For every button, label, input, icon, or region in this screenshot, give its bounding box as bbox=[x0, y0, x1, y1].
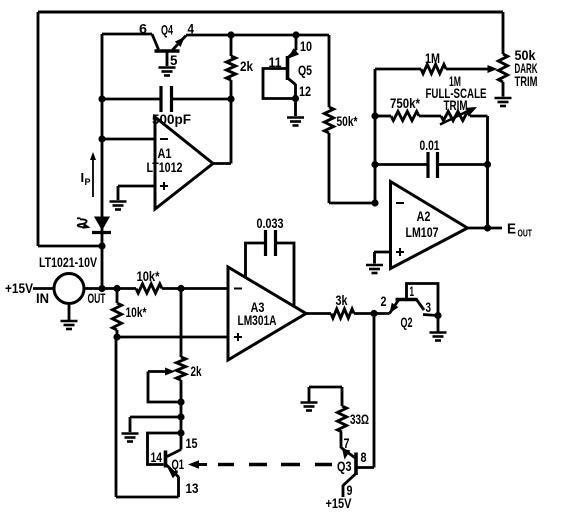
svg-text:LT1021-10V: LT1021-10V bbox=[39, 254, 98, 270]
svg-text:TRIM: TRIM bbox=[515, 73, 538, 89]
svg-text:LM301A: LM301A bbox=[238, 312, 277, 328]
svg-text:1: 1 bbox=[410, 283, 415, 299]
svg-text:12: 12 bbox=[299, 83, 311, 99]
svg-text:14: 14 bbox=[151, 449, 163, 465]
svg-text:7: 7 bbox=[344, 435, 350, 451]
svg-text:Q2: Q2 bbox=[401, 314, 413, 330]
svg-text:10k*: 10k* bbox=[137, 268, 160, 284]
svg-text:Q5: Q5 bbox=[298, 62, 312, 78]
svg-text:3: 3 bbox=[426, 299, 432, 315]
svg-text:4: 4 bbox=[188, 21, 195, 37]
svg-text:8: 8 bbox=[361, 449, 367, 465]
svg-text:Q1: Q1 bbox=[172, 456, 185, 472]
svg-text:0.01: 0.01 bbox=[420, 137, 440, 153]
svg-text:A2: A2 bbox=[417, 208, 431, 224]
svg-text:OUT: OUT bbox=[88, 290, 106, 306]
svg-text:Q4: Q4 bbox=[161, 22, 173, 38]
svg-text:11: 11 bbox=[269, 54, 282, 70]
svg-text:LT1012: LT1012 bbox=[147, 159, 183, 175]
svg-text:6: 6 bbox=[139, 21, 147, 37]
svg-text:E: E bbox=[507, 221, 516, 238]
svg-text:500pF: 500pF bbox=[152, 111, 191, 127]
svg-text:0.033: 0.033 bbox=[257, 215, 284, 231]
svg-text:TRIM: TRIM bbox=[444, 97, 468, 113]
svg-text:10k*: 10k* bbox=[126, 304, 147, 320]
svg-text:2: 2 bbox=[381, 293, 387, 309]
svg-text:13: 13 bbox=[186, 480, 199, 496]
svg-text:1M: 1M bbox=[425, 50, 440, 66]
svg-text:750k*: 750k* bbox=[390, 95, 420, 111]
svg-text:IN: IN bbox=[36, 290, 49, 306]
svg-text:LM107: LM107 bbox=[406, 224, 439, 240]
svg-text:3k: 3k bbox=[336, 292, 348, 308]
svg-text:5: 5 bbox=[170, 52, 178, 68]
svg-text:50k*: 50k* bbox=[337, 113, 358, 129]
svg-text:+15V: +15V bbox=[5, 280, 34, 296]
svg-text:2k: 2k bbox=[240, 58, 253, 74]
svg-text:OUT: OUT bbox=[518, 229, 533, 240]
svg-text:15: 15 bbox=[186, 435, 198, 451]
svg-text:33Ω: 33Ω bbox=[350, 411, 369, 427]
svg-text:P: P bbox=[85, 177, 91, 187]
svg-text:10: 10 bbox=[300, 38, 312, 54]
svg-text:+15V: +15V bbox=[326, 495, 353, 511]
svg-text:Q3: Q3 bbox=[337, 458, 352, 474]
svg-text:2k: 2k bbox=[191, 363, 202, 379]
